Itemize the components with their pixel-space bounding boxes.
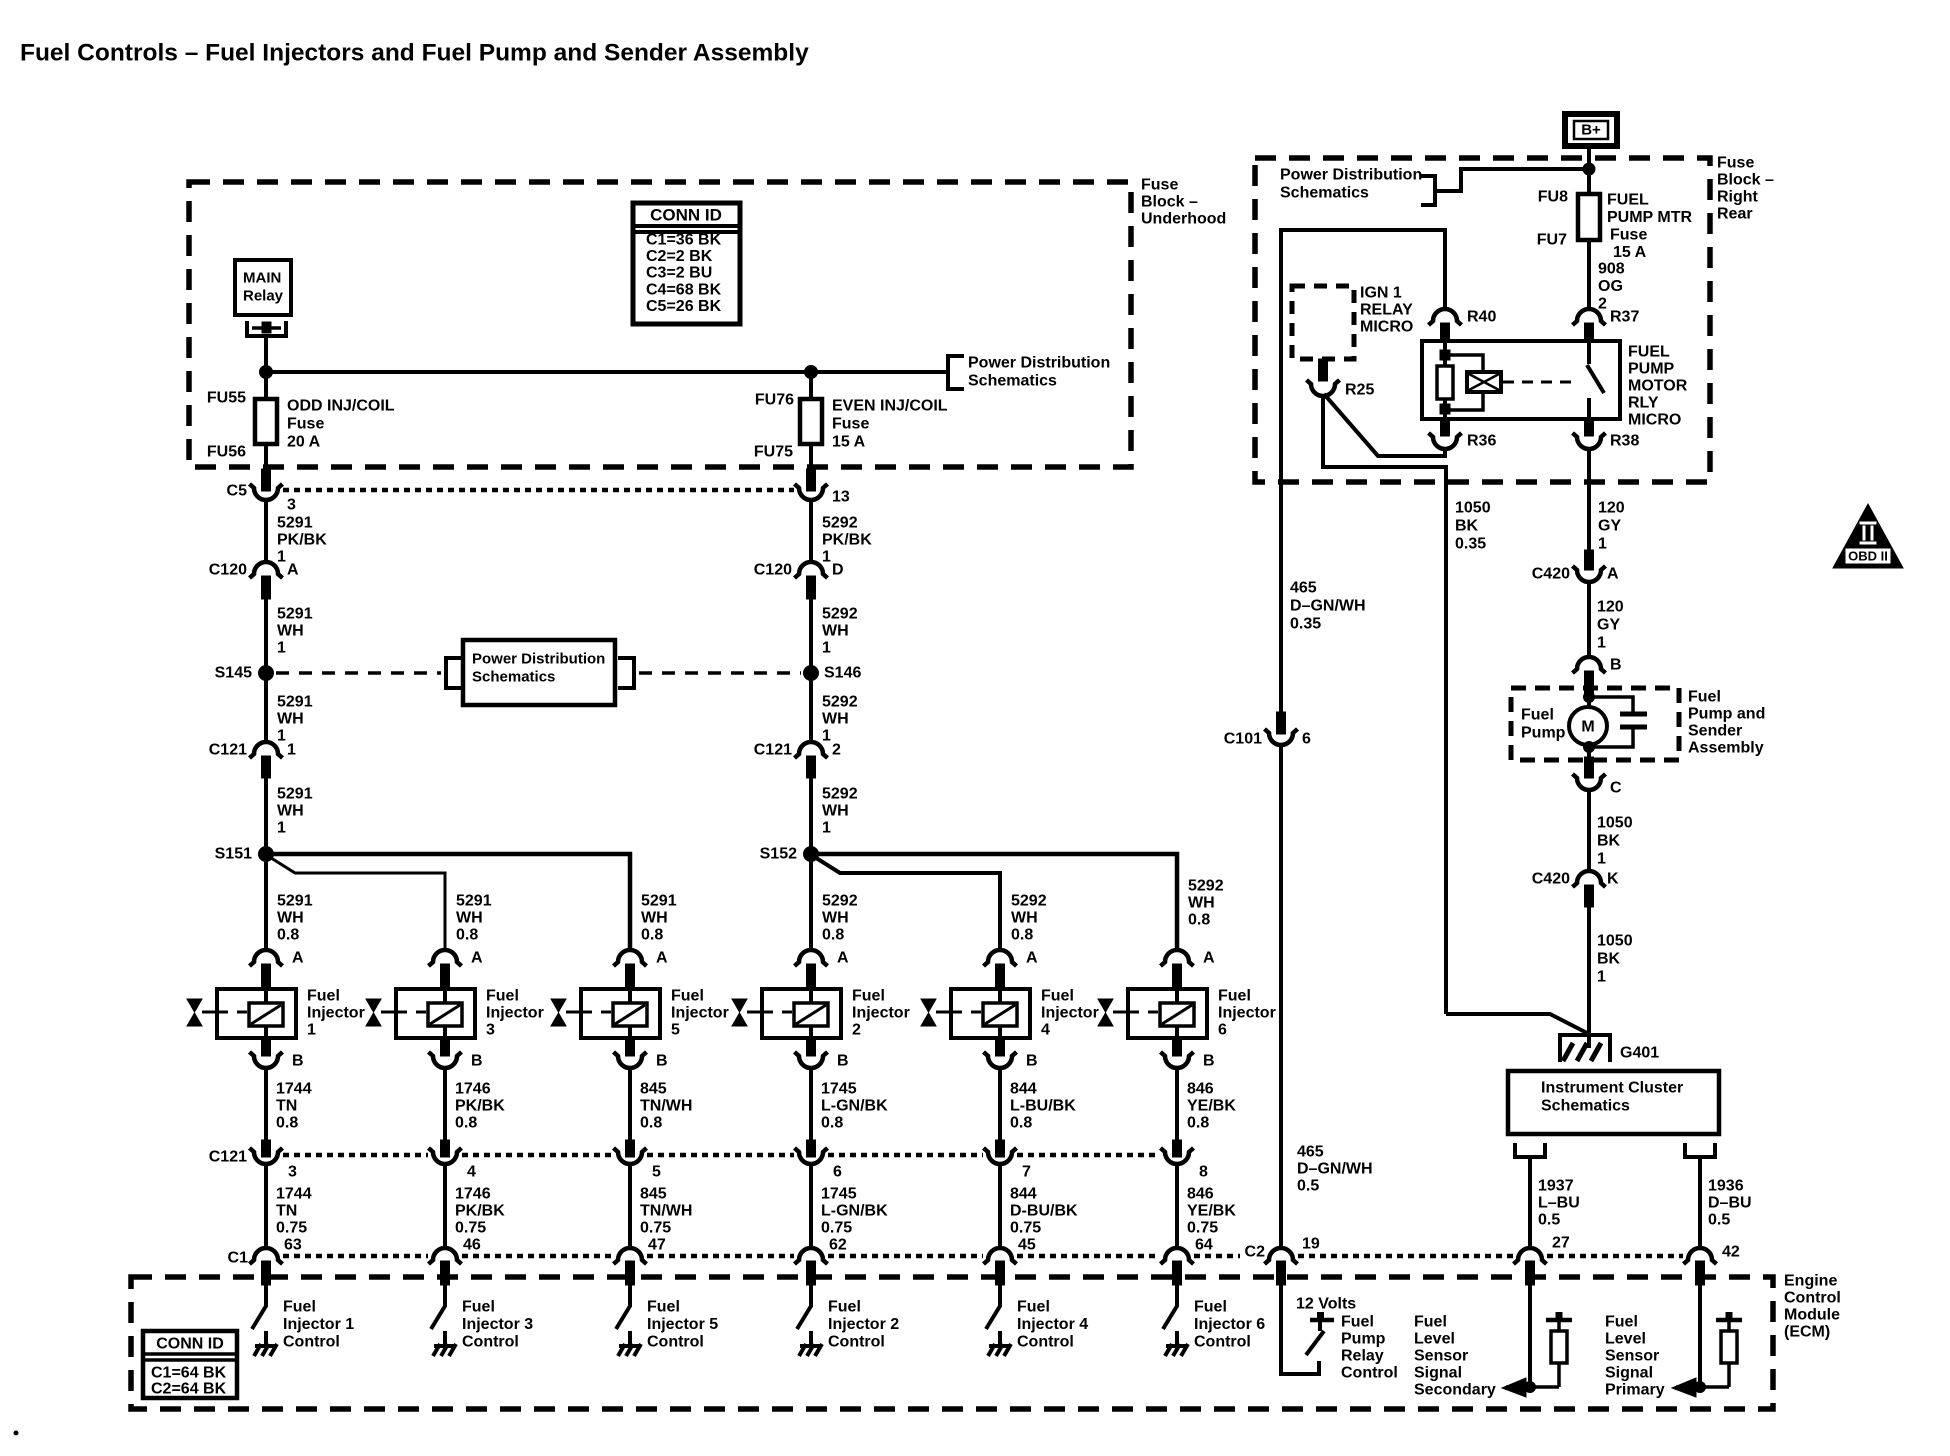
svg-text:1050: 1050 [1597,933,1633,950]
label wire 5291 WH mid [277,694,313,745]
svg-text:C1=64 BK: C1=64 BK [151,1365,227,1382]
fuse FU76 EVEN INJ/COIL [800,399,822,444]
svg-text:0.8: 0.8 [1010,1115,1032,1132]
label wire 846 injector 6 [1187,1081,1236,1132]
label FUEL PUMP MOTOR RLY MICRO [1628,344,1688,429]
wire IGN1 to R25 [1319,359,1328,381]
label wire 908 OG 2 [1598,261,1625,313]
wire FU55 to C5 [262,444,271,491]
svg-text:CONN ID: CONN ID [156,1336,224,1353]
svg-text:OBD II: OBD II [1848,549,1888,564]
label wire 1746 injector 3 [455,1186,505,1237]
svg-text:Fuel Controls – Fuel Injectors: Fuel Controls – Fuel Injectors and Fuel … [20,40,809,67]
svg-text:20 A: 20 A [287,434,321,451]
wire 908 OG fuse to R37 [1587,240,1591,307]
svg-text:WH: WH [456,910,483,927]
connector C1 row pin 63 [250,1248,283,1285]
label wire 5292 PK/BK [822,515,872,566]
connector injector 1 pin B [250,1052,283,1068]
svg-text:Fuel: Fuel [671,988,704,1005]
svg-text:Fuse: Fuse [287,416,324,433]
svg-text:6: 6 [1302,731,1311,748]
label R37 [1610,309,1639,326]
svg-text:WH: WH [277,803,304,820]
svg-text:0.75: 0.75 [640,1220,671,1237]
fuel injector 1 body [217,989,296,1038]
label wire 5292 WH 0.8 injector 2 [822,893,858,944]
wire relay ground to G401 [1446,1014,1589,1034]
off-page bracket power distribution (underhood) [948,356,964,389]
svg-text:A: A [837,950,849,967]
wire 5292 WH S146 to C121 [809,680,813,742]
relay FUEL PUMP MOTOR RLY MICRO box [1422,341,1620,419]
relay MAIN Relay box [235,260,291,315]
label pin 19 [1302,1236,1320,1253]
connector C420 pin K [1573,871,1606,907]
svg-text:WH: WH [1011,910,1038,927]
off-page bracket power distribution (right rear) [1421,176,1435,205]
svg-text:1: 1 [1598,536,1607,553]
svg-text:0.75: 0.75 [276,1220,307,1237]
svg-text:B: B [656,1053,668,1070]
fuel pump and sender assembly dashed box [1511,688,1679,760]
svg-text:0.8: 0.8 [1188,912,1210,929]
svg-text:Injector: Injector [1218,1005,1276,1022]
svg-text:B+: B+ [1581,122,1601,139]
wire 1745 L-GN/BK injector 2 [809,1164,813,1247]
svg-text:42: 42 [1722,1244,1740,1261]
connector injector 3 pin A [429,950,462,989]
wire 5291 WH S145 to C121 [264,680,268,742]
wire S151 to injector 1 [264,861,268,950]
label wire 5292 WH 0.8 injector 6 [1188,878,1224,929]
label EVEN INJ/COIL fuse [832,398,948,451]
svg-text:C1=36 BK: C1=36 BK [646,232,722,249]
wire injector 5 to pin B [626,1038,635,1056]
svg-text:Fuel: Fuel [852,988,885,1005]
svg-text:Signal: Signal [1414,1365,1462,1382]
svg-text:120: 120 [1597,599,1624,616]
label pin B injector 5 [656,1053,668,1070]
svg-text:Block –: Block – [1717,172,1774,189]
svg-text:Pump: Pump [1341,1331,1386,1348]
svg-text:Injector 3: Injector 3 [462,1316,533,1333]
connector C5 pin 3 [250,484,283,500]
svg-text:0.8: 0.8 [456,927,478,944]
svg-text:0.5: 0.5 [1538,1212,1560,1229]
wire 1050 BK C to C420K [1587,790,1591,869]
label C120 A [209,562,299,579]
label pin A injector 6 [1203,950,1215,967]
svg-text:27: 27 [1552,1235,1570,1252]
CONN ID table ECM [143,1331,237,1398]
svg-text:Relay: Relay [243,288,284,305]
check valve symbol injector 5 [551,999,581,1026]
arrow fuel level sensor signal primary [1672,1378,1729,1397]
svg-text:PUMP: PUMP [1628,361,1675,378]
svg-text:5291: 5291 [277,515,313,532]
svg-text:YE/BK: YE/BK [1187,1098,1236,1115]
svg-text:PK/BK: PK/BK [455,1203,505,1220]
label pin B injector 6 [1203,1053,1215,1070]
label fuel injector 6 control [1194,1299,1265,1351]
wire 5292 WH C120 to S146 [809,599,813,667]
svg-text:C120: C120 [754,562,792,579]
svg-text:C2=64 BK: C2=64 BK [151,1381,227,1398]
connector R40 [1429,309,1462,342]
svg-text:5291: 5291 [277,606,313,623]
label wire 1050 BK upper [1597,815,1633,868]
connector injector 6 pin B [1161,1052,1194,1068]
svg-text:R38: R38 [1610,433,1639,450]
svg-text:2: 2 [1598,296,1607,313]
label fuel pump [1521,707,1566,742]
svg-text:Assembly: Assembly [1688,740,1764,757]
svg-text:Underhood: Underhood [1141,211,1226,228]
svg-text:Pump and: Pump and [1688,706,1765,723]
connector injector 6 pin A [1161,950,1194,989]
wire 844 L-BU/BK injector 4 [996,1068,1005,1157]
svg-text:A: A [292,950,304,967]
wire R25 to ground circuit [1323,396,1446,1014]
connector injector 2 pin B [795,1052,828,1068]
resistor pull-up secondary [1546,1312,1572,1387]
fuse block underhood label [1141,177,1226,228]
svg-text:12 Volts: 12 Volts [1296,1296,1356,1313]
svg-text:Control: Control [1784,1290,1841,1307]
svg-text:B: B [471,1053,483,1070]
splice S145 [259,666,274,681]
svg-text:IGN 1: IGN 1 [1360,285,1402,302]
connector injector 3 pin B [429,1052,462,1068]
connector ECM pin 27 [1514,1248,1547,1285]
svg-text:1: 1 [307,1022,316,1039]
svg-text:Fuel: Fuel [1688,689,1721,706]
wire ECM driver injector 5 [628,1285,632,1307]
label pin 13 [832,489,850,506]
svg-text:1: 1 [277,640,286,657]
wire FU76 to connector 13 [807,444,816,491]
connector C5 pin 13 [795,484,828,500]
title Fuel Controls heading [20,40,809,67]
fuse block right rear dashed boundary [1255,158,1710,482]
svg-text:D–GN/WH: D–GN/WH [1297,1161,1373,1178]
label wire 1937 L-BU [1538,1178,1580,1229]
label R40 [1467,309,1496,326]
svg-text:3: 3 [486,1022,495,1039]
label pin 62 [829,1237,847,1254]
svg-text:465: 465 [1297,1144,1324,1161]
label FU7 [1537,232,1567,249]
svg-text:S145: S145 [215,665,252,682]
MAIN relay contact symbol [247,321,286,336]
svg-text:C4=68 BK: C4=68 BK [646,281,722,298]
label C101 6 [1224,731,1311,748]
ground ECM injector 4 driver [988,1331,1011,1356]
fuel injector 6 body [1128,989,1207,1038]
fuse block underhood dashed boundary [189,182,1131,467]
label wire 845 injector 5 [640,1081,692,1132]
svg-text:BK: BK [1597,833,1621,850]
svg-text:Fuse: Fuse [1141,177,1178,194]
svg-text:WH: WH [822,623,849,640]
wire ECM driver injector 6 [1175,1285,1179,1307]
svg-text:6: 6 [833,1164,842,1181]
svg-text:WH: WH [641,910,668,927]
check valve symbol injector 1 [187,999,217,1026]
svg-text:RLY: RLY [1628,395,1659,412]
svg-text:1746: 1746 [455,1186,491,1203]
node bus junction left [260,366,273,379]
svg-text:1050: 1050 [1455,500,1491,517]
svg-text:19: 19 [1302,1236,1320,1253]
wire 1050 BK C420K to G401 [1587,907,1591,1037]
svg-text:0.75: 0.75 [1187,1220,1218,1237]
svg-text:5: 5 [652,1164,661,1181]
wire 845 TN/WH injector 5 [628,1164,632,1247]
svg-text:15 A: 15 A [832,434,866,451]
label fuel injector 1 control [283,1299,354,1351]
label ODD INJ/COIL fuse [287,398,395,451]
svg-text:5292: 5292 [822,694,858,711]
svg-text:1937: 1937 [1538,1178,1574,1195]
wire injector 1 to pin B [262,1038,271,1056]
connector injector 4 pin B [984,1052,1017,1068]
wire ECM pin 42 to sense node [1698,1285,1702,1387]
label IGN 1 RELAY MICRO [1360,285,1413,336]
connector C120 pin A [250,562,283,599]
switch fuel injector 1 driver [252,1306,266,1329]
svg-text:FU56: FU56 [207,444,246,461]
svg-text:Power Distribution: Power Distribution [968,355,1110,372]
svg-text:0.75: 0.75 [821,1220,852,1237]
svg-text:845: 845 [640,1186,667,1203]
label pin 42 [1722,1244,1740,1261]
svg-text:L-GN/BK: L-GN/BK [821,1203,888,1220]
wire 5291 WH C121 to S151 [264,778,268,849]
svg-text:C420: C420 [1532,566,1570,583]
label wire 120 GY lower [1597,599,1624,652]
label pin B injector 3 [471,1053,483,1070]
label S146 [824,665,861,682]
svg-text:FU76: FU76 [755,392,794,409]
svg-text:844: 844 [1010,1186,1037,1203]
label wire 1050 BK lower [1597,933,1633,986]
connector R38 [1573,419,1606,449]
svg-text:L-GN/BK: L-GN/BK [821,1098,888,1115]
label pin 6 [833,1164,842,1181]
svg-text:5292: 5292 [822,606,858,623]
svg-text:Engine: Engine [1784,1273,1837,1290]
svg-text:PUMP MTR: PUMP MTR [1607,209,1692,226]
label pin 4 [467,1164,476,1181]
wire injector 6 to pin B [1173,1038,1182,1056]
label wire 5292 WH lower [822,786,858,837]
connector injector 5 pin B [614,1052,647,1068]
svg-text:1: 1 [822,640,831,657]
switch fuel pump relay control [1306,1331,1324,1355]
label pin 5 [652,1164,661,1181]
svg-text:3: 3 [287,497,296,514]
svg-text:Fuse: Fuse [832,416,869,433]
svg-text:C3=2 BU: C3=2 BU [646,265,712,282]
label pin C fuel pump [1610,780,1622,797]
svg-text:C101: C101 [1224,731,1262,748]
wire bus to FU76 [809,372,813,399]
wire 1744 TN injector 1 [264,1164,268,1247]
svg-text:5291: 5291 [277,694,313,711]
label pin B injector 1 [292,1053,304,1070]
svg-text:8: 8 [1199,1164,1208,1181]
connector C1 row pin 46 [429,1248,462,1285]
label wire 846 injector 6 [1187,1186,1236,1237]
svg-text:Injector 6: Injector 6 [1194,1316,1265,1333]
svg-text:1050: 1050 [1597,815,1633,832]
wire 1936 D-BU [1698,1157,1702,1247]
label fuel level sensor signal secondary [1414,1314,1496,1399]
label C420 K [1532,871,1619,888]
svg-text:Relay: Relay [1341,1348,1384,1365]
svg-text:C2=2 BK: C2=2 BK [646,248,713,265]
arrow fuel level sensor signal secondary [1502,1378,1559,1397]
connector C420 pin A [1573,566,1606,582]
svg-text:Block –: Block – [1141,194,1198,211]
svg-text:3: 3 [288,1164,297,1181]
svg-text:1745: 1745 [821,1081,857,1098]
fuel injector 4 body [951,989,1030,1038]
svg-text:Power Distribution: Power Distribution [1280,167,1422,184]
svg-text:Fuel: Fuel [486,988,519,1005]
off-page bracket right of power distribution box [618,658,634,688]
svg-text:Primary: Primary [1605,1382,1665,1399]
svg-text:62: 62 [829,1237,847,1254]
label R25 [1345,382,1374,399]
svg-text:5292: 5292 [822,786,858,803]
svg-text:TN/WH: TN/WH [640,1203,692,1220]
wire 1746 PK/BK injector 3 [441,1068,450,1157]
svg-text:A: A [287,562,299,579]
dotted connector line C5 [283,488,794,493]
label wire 1050 BK 0.35 [1455,500,1491,553]
svg-text:OG: OG [1598,278,1623,295]
svg-text:Module: Module [1784,1307,1840,1324]
svg-text:Injector: Injector [1041,1005,1099,1022]
wire 845 TN/WH injector 5 [626,1068,635,1157]
switch fuel injector 4 driver [986,1306,1000,1329]
svg-text:1936: 1936 [1708,1178,1744,1195]
label S145 [215,665,252,682]
relay switch contact [1587,341,1604,419]
svg-text:A: A [1203,950,1215,967]
svg-text:1: 1 [822,820,831,837]
wire S151 to injector 3 branch [268,856,445,950]
wire R25 to R36 [1324,394,1445,456]
label fuel injector 5 [671,988,729,1039]
svg-text:Injector: Injector [852,1005,910,1022]
label pin A injector 4 [1026,950,1038,967]
connector injector 2 pin A [795,950,828,989]
svg-text:0.8: 0.8 [276,1115,298,1132]
wire 5291 WH C120 to S145 [264,599,268,667]
svg-text:0.8: 0.8 [641,927,663,944]
svg-text:846: 846 [1187,1186,1214,1203]
svg-text:BK: BK [1597,951,1621,968]
wire 1746 PK/BK injector 3 [443,1164,447,1247]
connector C121 row pin 3 [250,1148,283,1164]
svg-text:Fuse: Fuse [1610,227,1647,244]
label fuel pump and sender assembly [1688,689,1765,757]
svg-text:1: 1 [277,728,286,745]
fuel injector 5 body [581,989,660,1038]
svg-text:PK/BK: PK/BK [455,1098,505,1115]
svg-text:FU55: FU55 [207,390,246,407]
svg-text:B: B [1203,1053,1215,1070]
wire MAIN relay to bus [264,336,268,374]
svg-text:45: 45 [1018,1237,1036,1254]
connector bracket instrument cluster left [1515,1143,1545,1157]
wire 846 YE/BK injector 6 [1175,1164,1179,1247]
svg-text:EVEN INJ/COIL: EVEN INJ/COIL [832,398,948,415]
svg-text:0.8: 0.8 [277,927,299,944]
dotted connector line C121 row [283,1153,1160,1158]
svg-text:MICRO: MICRO [1628,412,1681,429]
svg-text:Fuel: Fuel [1017,1299,1050,1316]
connector C121 row pin 6 [795,1148,828,1164]
label power distribution schematics (underhood) [968,355,1110,390]
check valve symbol injector 6 [1098,999,1128,1026]
svg-text:2: 2 [852,1022,861,1039]
label wire 845 injector 5 [640,1186,692,1237]
svg-text:GY: GY [1597,617,1620,634]
label wire 1744 injector 1 [276,1081,312,1132]
connector C121 row pin 4 [429,1148,462,1164]
svg-text:B: B [1610,657,1622,674]
svg-text:5: 5 [671,1022,680,1039]
label 12 Volts [1296,1296,1356,1313]
svg-text:1744: 1744 [276,1186,312,1203]
svg-text:Fuse: Fuse [1717,155,1754,172]
svg-text:6: 6 [1218,1022,1227,1039]
svg-text:Fuel: Fuel [1521,707,1554,724]
wire S152 to injector 6 branch [811,854,1177,950]
switch fuel injector 5 driver [616,1306,630,1329]
wire 1937 L-BU [1528,1157,1532,1247]
svg-text:C5=26 BK: C5=26 BK [646,298,722,315]
svg-text:Control: Control [462,1334,519,1351]
relay coil resistor [1437,341,1453,419]
svg-text:Injector 4: Injector 4 [1017,1316,1088,1333]
svg-text:CONN ID: CONN ID [650,206,722,225]
connector C1 row pin 64 [1161,1248,1194,1285]
resistor pull-up primary [1716,1312,1742,1387]
svg-text:0.8: 0.8 [455,1115,477,1132]
svg-text:2: 2 [832,742,841,759]
CONN ID table underhood [633,203,740,324]
svg-text:Fuel: Fuel [828,1299,861,1316]
label wire 5292 WH mid [822,694,858,745]
svg-text:D-BU/BK: D-BU/BK [1010,1203,1078,1220]
svg-text:ODD INJ/COIL: ODD INJ/COIL [287,398,395,415]
label FU75 [754,444,793,461]
instrument cluster schematics box [1508,1071,1719,1134]
svg-text:S152: S152 [760,846,797,863]
svg-text:A: A [471,950,483,967]
wire fuel pump to pin C [1585,757,1594,778]
svg-text:4: 4 [467,1164,476,1181]
svg-text:0.35: 0.35 [1290,616,1321,633]
label wire 5291 WH 0.8 injector 1 [277,893,313,944]
supply 12 Volts symbol [1310,1312,1334,1331]
